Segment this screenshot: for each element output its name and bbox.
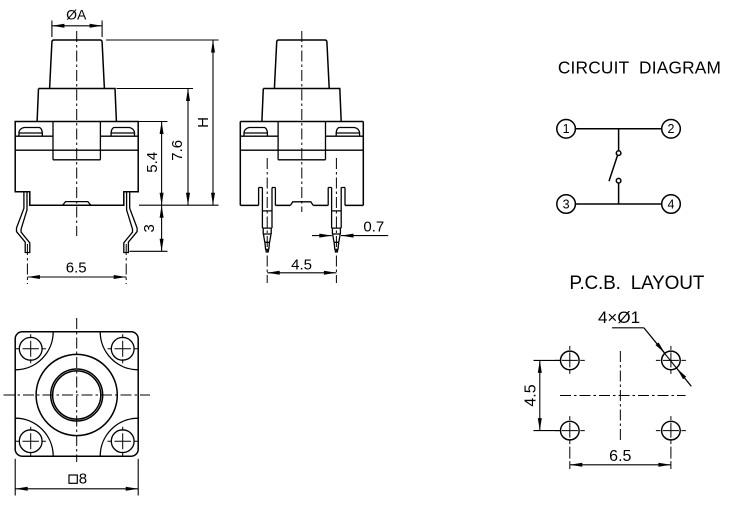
svg-text:3: 3 [141, 224, 158, 232]
svg-text:CIRCUIT DIAGRAM: CIRCUIT DIAGRAM [558, 58, 721, 78]
svg-text:3: 3 [563, 197, 570, 211]
svg-text:H: H [195, 117, 212, 128]
svg-text:0.7: 0.7 [363, 218, 384, 235]
svg-text:P.C.B. LAYOUT: P.C.B. LAYOUT [569, 273, 704, 294]
svg-text:4: 4 [668, 197, 675, 211]
svg-text:8: 8 [79, 470, 87, 487]
svg-text:4.5: 4.5 [291, 256, 312, 273]
svg-text:ØA: ØA [66, 7, 87, 23]
svg-text:6.5: 6.5 [66, 260, 87, 277]
svg-text:5.4: 5.4 [144, 152, 161, 173]
svg-text:6.5: 6.5 [609, 448, 631, 465]
svg-text:4×Ø1: 4×Ø1 [598, 308, 640, 327]
svg-text:1: 1 [563, 122, 570, 136]
svg-text:2: 2 [668, 122, 675, 136]
svg-text:7.6: 7.6 [169, 140, 186, 161]
svg-text:4.5: 4.5 [522, 384, 539, 406]
